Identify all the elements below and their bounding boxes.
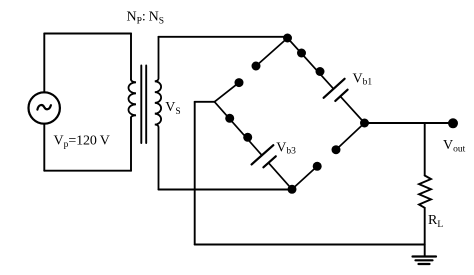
wire output horizontal — [365, 122, 454, 124]
wire primary loop bottom — [44, 170, 131, 172]
wire secondary bottom to bridge — [159, 189, 293, 191]
transformer core — [141, 66, 146, 144]
bridge arm top-right wire battery to right vertex — [340, 96, 364, 123]
battery Vb1 long plate — [324, 79, 345, 98]
node dot top-right arm 2 — [316, 67, 325, 76]
node top vertex — [283, 34, 292, 43]
battery Vb3 short plate — [263, 156, 275, 167]
wire left vertical drop — [194, 102, 196, 245]
bridge arm bottom-left wire to battery — [215, 102, 262, 156]
ac source V_P — [29, 92, 60, 123]
node dot bottom-right arm 1 — [313, 162, 322, 171]
wire primary loop left bottom — [43, 124, 45, 171]
wire primary loop left top — [43, 34, 45, 93]
wire primary loop right upper — [130, 34, 132, 80]
bridge arm top-right wire to battery — [288, 38, 334, 89]
bridge arm bottom-left wire battery to bottom vertex — [269, 163, 293, 190]
node dot top-left arm 1 — [235, 78, 244, 87]
transformer secondary coil — [155, 37, 161, 190]
svg-text:NP: NS: NP: NS — [127, 10, 165, 27]
resistor RL — [419, 176, 431, 208]
transformer primary coil — [129, 80, 136, 118]
wire bottom long — [195, 244, 425, 246]
wire left-vertex stub — [195, 101, 215, 103]
node dot bottom-left arm 1 — [225, 114, 234, 123]
node V_out terminal — [448, 118, 458, 128]
node dot top-left arm 2 — [252, 62, 261, 71]
node bottom vertex — [288, 185, 297, 194]
ground — [413, 257, 437, 265]
wire primary loop top — [44, 33, 131, 35]
wire resistor to bottom — [424, 208, 426, 256]
bridge arm top-left segment a — [215, 83, 240, 102]
battery Vb1 short plate — [335, 90, 347, 101]
svg-text:Vp=120 V: Vp=120 V — [54, 133, 110, 150]
wire output down to resistor — [424, 123, 426, 176]
node dot bottom-left arm 2 — [243, 133, 252, 142]
node right vertex — [360, 119, 369, 128]
bridge arm top-left segment b — [256, 38, 288, 66]
node dot top-right arm 1 — [297, 49, 306, 58]
bridge arm bottom-right segment a — [292, 166, 317, 189]
battery Vb3 long plate — [252, 145, 274, 164]
wire primary loop right lower — [130, 118, 132, 171]
bridge arm bottom-right segment b — [336, 123, 365, 150]
wire secondary top to bridge — [159, 36, 288, 38]
node dot bottom-right arm 2 — [332, 145, 341, 154]
